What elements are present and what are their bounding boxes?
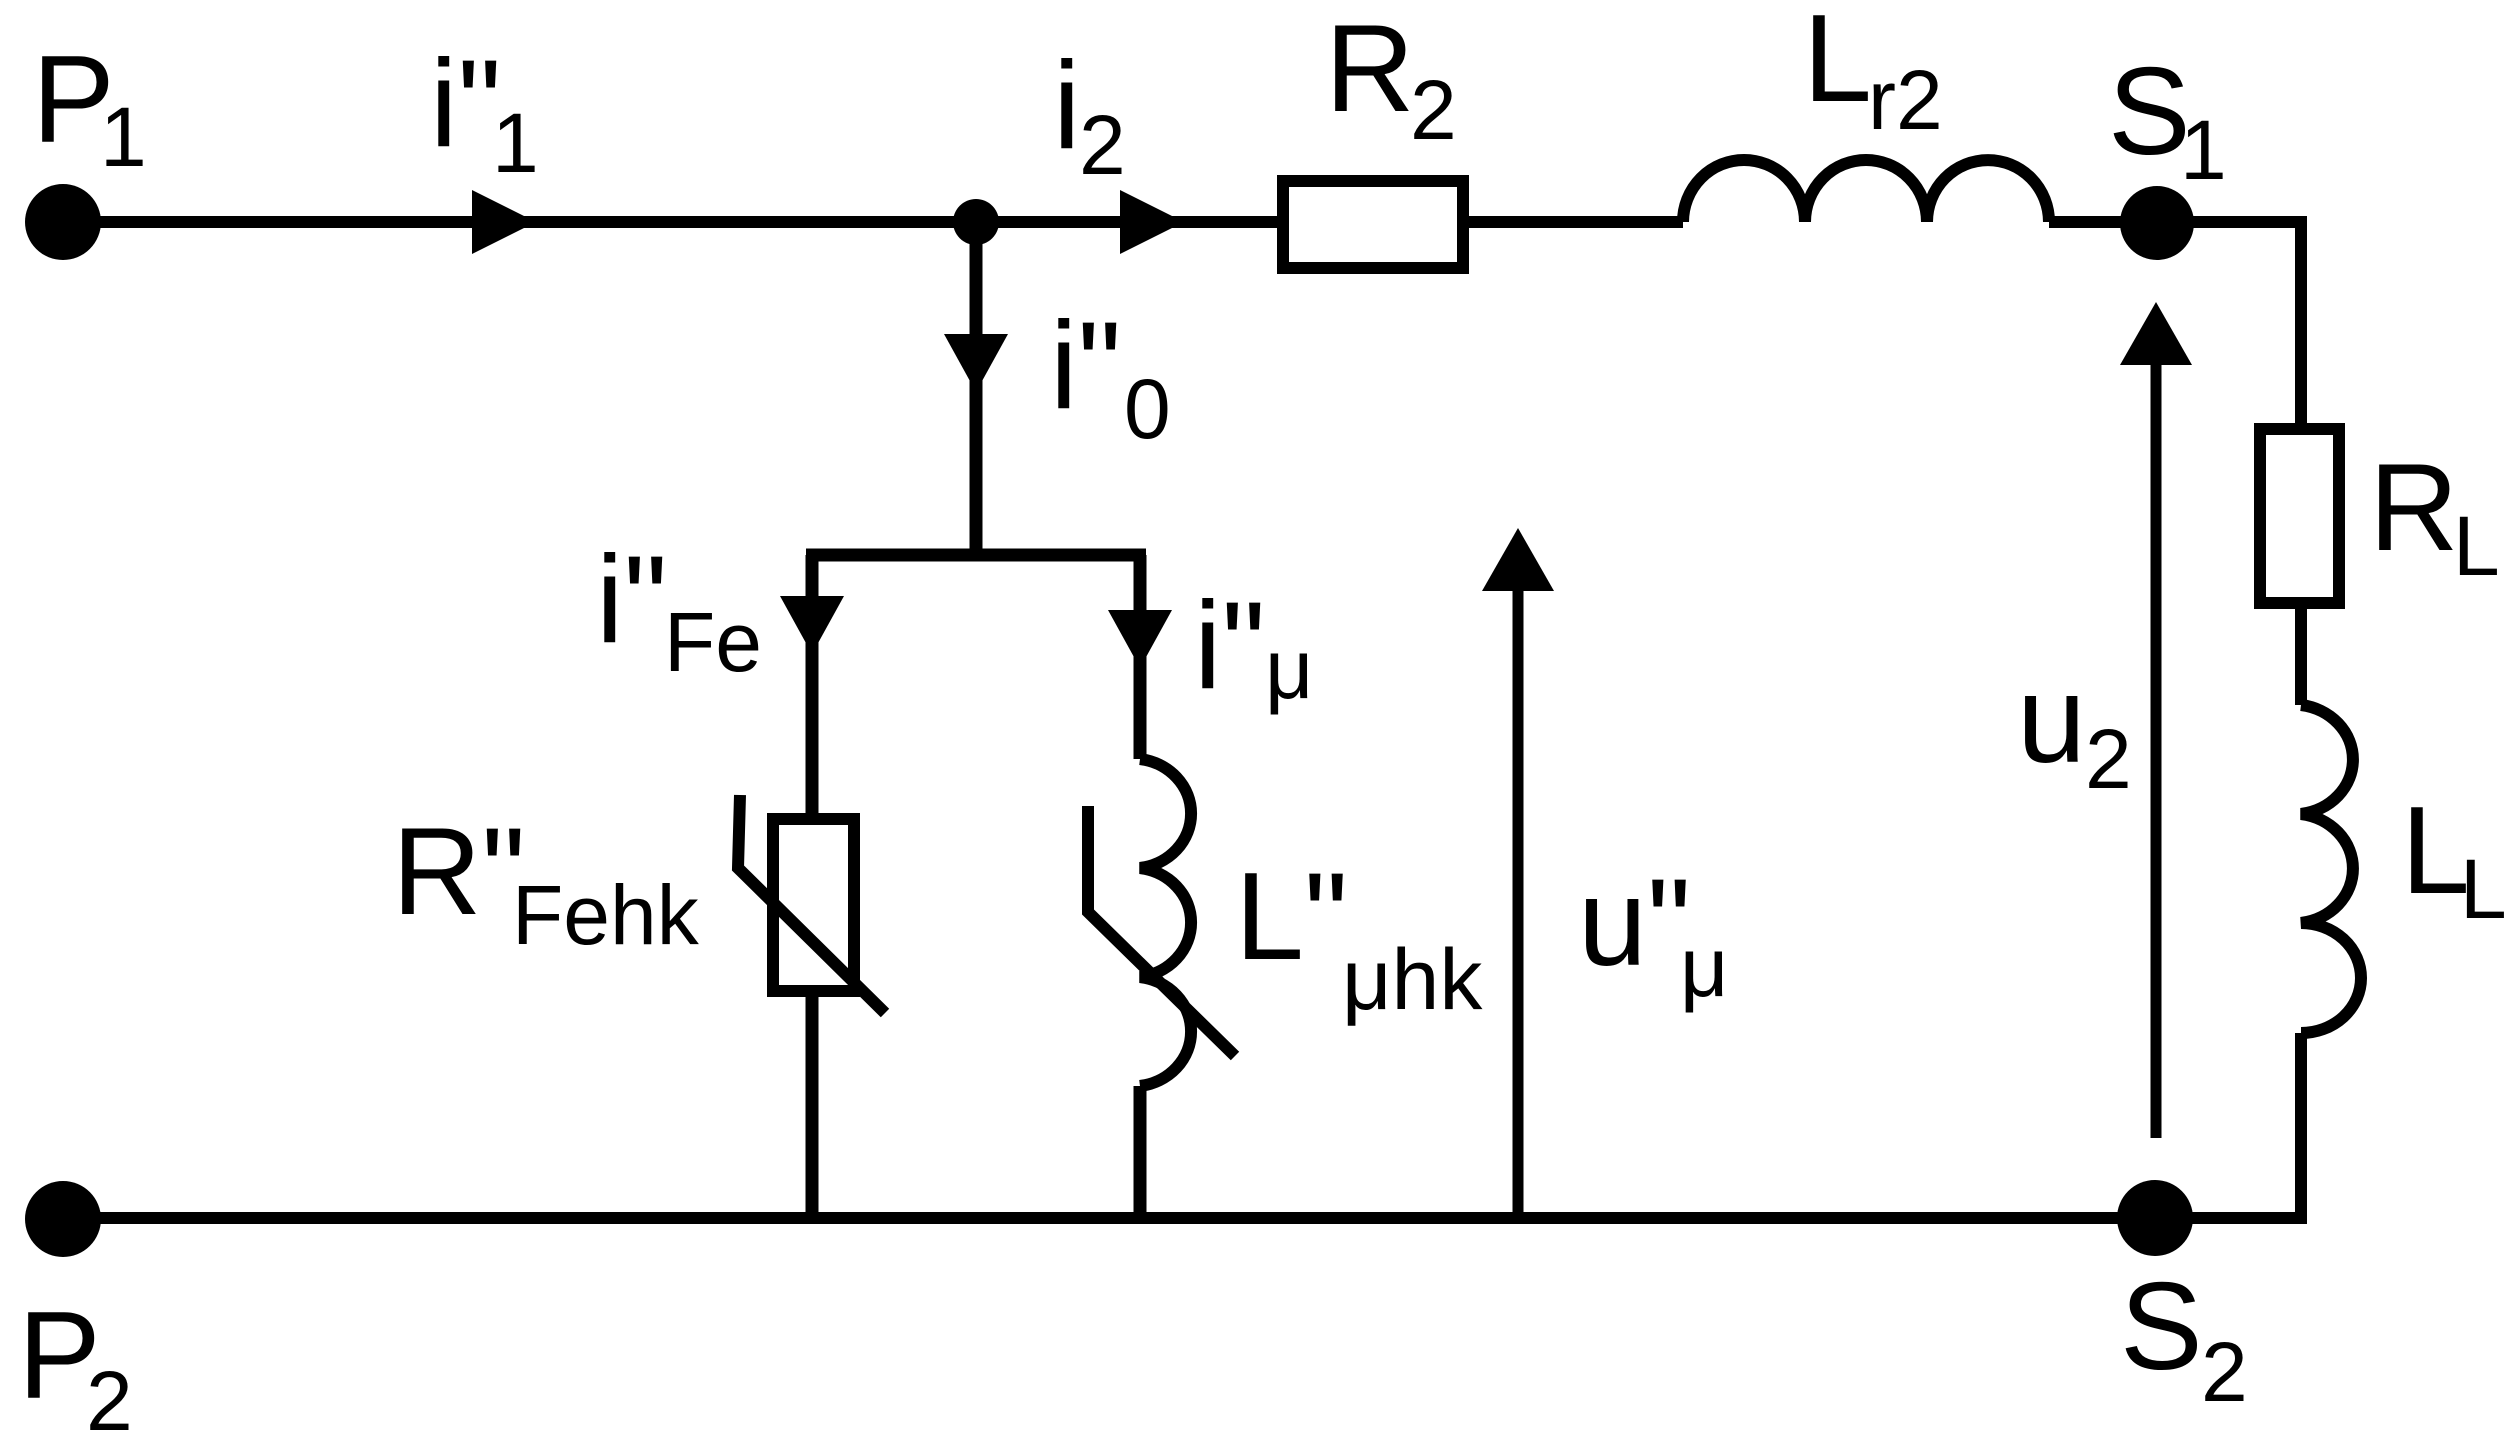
label Lr2 [1803,0,1943,147]
label i"0 [1050,297,1171,456]
svg-text:μhk: μhk [1342,932,1483,1028]
svg-text:1: 1 [2180,103,2227,197]
label RL [2369,439,2500,593]
arrowhead current i"mu [1108,610,1172,668]
resistor R2 [1283,181,1463,268]
svg-text:r2: r2 [1868,53,1943,147]
node junction [953,199,999,245]
svg-text:S: S [2108,43,2191,181]
terminal P1 [25,184,101,260]
label i"mu [1194,577,1313,716]
node P1 label [32,31,147,184]
terminal S1 [2120,186,2194,260]
wire left branch lower [806,997,819,1218]
wire LL to bottom [2295,1033,2307,1224]
arrow voltage u2 [2120,302,2192,1138]
svg-text:μ: μ [1680,920,1728,1014]
label i"1 [430,35,539,190]
svg-text:u": u" [1578,854,1691,992]
svg-text:R": R" [392,803,526,941]
svg-text:R: R [2369,439,2459,577]
label u2 [2017,651,2132,806]
label S1 [2108,43,2227,197]
svg-text:2: 2 [1079,98,1126,192]
wire top: P1 to R2 [63,216,1283,228]
label LL [2401,782,2507,936]
arrowhead current i"Fe [780,596,844,654]
svg-text:i: i [1053,37,1081,175]
wire left branch upper [806,555,819,819]
svg-text:i": i" [1194,577,1266,715]
label i"Fe [596,531,762,689]
wire bottom: P2 to S2 corner [63,1212,2307,1224]
arrow voltage u"mu [1482,528,1554,1218]
svg-text:μ: μ [1265,622,1313,716]
svg-text:u: u [2017,651,2086,789]
arrowhead current i"0 [944,334,1008,392]
wire right vertical S1 corner to RL [2295,216,2307,429]
label u"mu [1578,854,1728,1014]
wire Lr2 to S1 [2049,216,2307,228]
inductor Lr2 [1683,160,2049,222]
wire right branch upper [1134,555,1147,759]
svg-text:L: L [1803,0,1872,128]
terminal P2 [25,1181,101,1257]
wire RL to LL [2295,609,2307,705]
svg-text:Fehk: Fehk [512,868,700,962]
svg-text:1: 1 [100,90,147,184]
svg-text:2: 2 [1410,63,1457,157]
svg-text:2: 2 [86,1354,133,1438]
terminal S2 [2117,1180,2193,1256]
label i2 [1053,37,1126,192]
wire right branch lower [1134,1086,1147,1218]
inductor L"muhk variable [1088,759,1235,1086]
wire junction stub down [970,222,983,561]
arrowhead current i2 [1120,190,1184,254]
resistor R"Fehk variable [738,795,885,1013]
svg-text:L": L" [1235,848,1348,986]
inductor LL [2301,705,2361,1033]
svg-text:2: 2 [2085,712,2132,806]
label S2 [2120,1258,2248,1419]
svg-text:S: S [2120,1258,2203,1396]
label R"Fehk [392,803,700,962]
svg-text:0: 0 [1124,362,1171,456]
svg-text:i": i" [1050,297,1122,435]
arrowhead current i"1 [472,190,536,254]
label L"muhk [1235,848,1483,1028]
svg-text:i": i" [430,35,502,173]
resistor RL [2260,429,2339,603]
svg-text:i": i" [596,531,668,669]
wire parallel top bar [806,549,1146,562]
label R2 [1325,0,1457,157]
svg-text:Fe: Fe [664,595,762,689]
wire R2 to Lr2 [1463,216,1683,228]
svg-text:L: L [2453,499,2500,593]
svg-text:2: 2 [2201,1325,2248,1419]
svg-text:R: R [1325,0,1415,138]
svg-text:L: L [2460,842,2507,936]
svg-text:1: 1 [492,96,539,190]
label P2 [18,1287,133,1438]
